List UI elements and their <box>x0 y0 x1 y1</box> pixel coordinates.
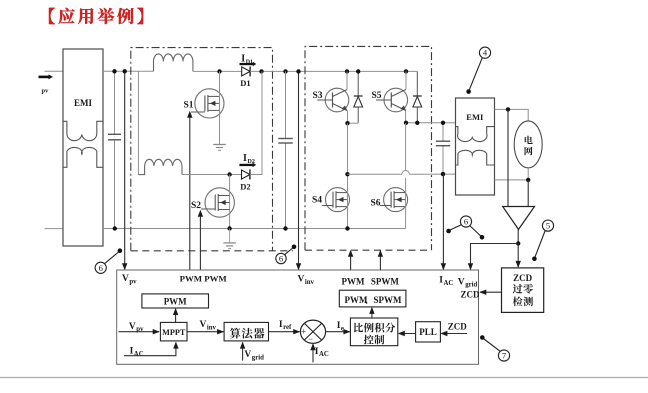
wire SPWM up out <box>379 251 381 270</box>
svg-text:grid: grid <box>252 355 264 362</box>
wire PV- to EMI <box>45 228 64 230</box>
svg-text:PWM: PWM <box>164 297 187 307</box>
wire IAC sense <box>442 174 444 269</box>
svg-text:−: − <box>308 334 313 344</box>
EMI winding bottom <box>63 147 103 167</box>
svg-text:I: I <box>241 53 245 64</box>
svg-text:D2: D2 <box>240 182 250 192</box>
wire summer to PI <box>326 331 350 333</box>
node cap top <box>441 121 445 125</box>
boost converter enclosure (dash-dot box) <box>131 48 273 251</box>
wire amp input right <box>527 180 529 206</box>
svg-text:+: + <box>301 326 306 336</box>
summer (error junction) <box>300 320 325 343</box>
wire IAC to summer <box>312 344 314 362</box>
node Cin bottom <box>113 226 117 230</box>
node S3 collector <box>345 69 349 73</box>
svg-text:PWM: PWM <box>342 276 365 286</box>
svg-text:e: e <box>341 325 344 332</box>
wire MPPT to PWM <box>175 309 177 323</box>
svg-text:V: V <box>129 322 136 332</box>
callout 4 to EMI out <box>479 47 490 58</box>
svg-text:6: 6 <box>464 217 468 227</box>
EMI out winding bottom <box>456 150 495 165</box>
wire amp input left <box>507 109 509 206</box>
svg-text:pv: pv <box>129 278 137 285</box>
block PWM SPWM <box>339 290 406 307</box>
wire L2 to D2 <box>182 174 241 176</box>
op-amp (ZCD amplifier triangle) <box>503 207 535 230</box>
svg-text:S2: S2 <box>191 201 201 211</box>
wire algorithm to summer <box>269 331 300 333</box>
wire L1 to D1 <box>193 70 242 72</box>
svg-text:grid: grid <box>465 282 477 289</box>
svg-text:V: V <box>244 350 251 360</box>
wire EMI to grid top <box>495 109 529 121</box>
transistor S3 <box>325 88 349 112</box>
node DC- <box>283 226 287 230</box>
wire PWM up out <box>350 251 352 270</box>
inductor L2 <box>138 159 182 174</box>
wire line2 (lower output) with hop <box>348 173 402 175</box>
wire grid bottom to EMI <box>495 168 529 180</box>
block PLL <box>416 322 441 342</box>
EMI winding top <box>63 121 103 140</box>
svg-text:5: 5 <box>546 221 550 231</box>
wire EMI out top <box>103 70 154 72</box>
wire Vinv sense <box>298 71 300 269</box>
S2 gate lead <box>201 208 215 210</box>
svg-text:AC: AC <box>134 351 144 358</box>
node Vpv tap <box>123 69 127 73</box>
ground under S2 <box>229 229 231 243</box>
callout 6 on IAC and Vgrid <box>460 216 471 227</box>
svg-text:MPPT: MPPT <box>162 328 186 337</box>
svg-text:ref: ref <box>283 324 292 331</box>
svg-text:AC: AC <box>319 351 329 358</box>
svg-text:V: V <box>200 320 207 330</box>
wire Vgrid to algorithm <box>242 343 244 361</box>
node boost out junction <box>259 69 263 73</box>
transistor S6 (MOSFET) <box>384 188 408 212</box>
capacitor DC link <box>285 71 287 138</box>
wire Vpv to MPPT <box>119 331 160 333</box>
svg-text:S5: S5 <box>372 91 382 101</box>
transistor S4 (MOSFET) <box>326 188 350 212</box>
node S4 source <box>345 226 349 230</box>
S1 gate lead <box>191 111 205 113</box>
svg-text:PWM PWM: PWM PWM <box>180 274 228 284</box>
node cap bottom <box>441 172 445 176</box>
ground under S1 <box>213 144 226 146</box>
inverter enclosure (dash-dot box) <box>305 46 432 250</box>
svg-text:7: 7 <box>502 351 506 361</box>
node S1 drain <box>217 69 221 73</box>
node S5 collector <box>404 69 408 73</box>
S6 gate lead <box>380 205 391 207</box>
controller enclosure box <box>117 270 479 364</box>
wire PWM to S2 gate <box>199 216 201 271</box>
svg-text:D1: D1 <box>240 78 250 88</box>
svg-text:SPWM: SPWM <box>374 295 403 305</box>
svg-text:PWM: PWM <box>345 295 368 305</box>
inductor L1 <box>154 54 193 71</box>
svg-text:EMI: EMI <box>466 112 484 122</box>
wire PI to PWMSPWM <box>371 308 373 318</box>
node S2 source rail <box>227 226 231 230</box>
wire D2 cathode up to rail <box>250 71 262 174</box>
wire PV+ to EMI <box>45 70 64 72</box>
node Vinv tap <box>296 69 300 73</box>
diode antiparallel S3 <box>357 71 359 96</box>
wire Vgrid sense <box>471 244 519 270</box>
node PV input (cut-off current arrow) <box>39 76 50 79</box>
callout 5 to ZCD <box>542 220 553 231</box>
wire ZCD out to controller <box>480 291 502 293</box>
capacitor AC filter <box>442 123 444 141</box>
wire bottom rail <box>103 228 406 230</box>
S4 gate lead <box>322 205 333 207</box>
node amp tap <box>506 107 510 111</box>
svg-text:V: V <box>122 274 129 284</box>
EMI filter block (output) <box>456 98 495 195</box>
node Cin top <box>112 69 116 73</box>
svg-text:6: 6 <box>99 263 103 273</box>
node S5 diode bottom <box>415 121 419 125</box>
svg-text:SPWM: SPWM <box>371 276 400 286</box>
svg-text:ZCD: ZCD <box>448 321 468 331</box>
wire S6 vertical (hops line2) <box>405 123 407 171</box>
node grid bottom <box>526 178 530 182</box>
svg-text:S6: S6 <box>371 198 381 208</box>
svg-text:EMI: EMI <box>74 98 92 108</box>
diode D1 <box>242 67 250 76</box>
svg-text:ZCD: ZCD <box>513 273 533 283</box>
svg-text:inv: inv <box>207 325 217 332</box>
block PWM <box>142 294 209 308</box>
ZCD zero-cross detect block <box>502 268 544 313</box>
node B junction <box>404 121 408 125</box>
wire MPPT to algorithm <box>187 331 223 333</box>
block MPPT <box>160 322 187 341</box>
wire S4 vertical <box>347 123 349 228</box>
wire to ZCD box <box>517 244 519 268</box>
callout 6 on Vpv <box>95 262 106 273</box>
svg-text:AC: AC <box>444 280 454 287</box>
wire node B with output <box>405 111 407 123</box>
transistor S5 <box>384 88 408 112</box>
wire S1 drain-source <box>219 71 221 144</box>
transistor S2 (MOSFET) <box>205 188 234 217</box>
callout 7 controller <box>498 350 509 361</box>
node S2 drain <box>227 172 231 176</box>
svg-text:pv: pv <box>42 88 50 95</box>
block algorithm 算法器 <box>224 322 268 341</box>
grid ellipse 电网 <box>514 121 542 168</box>
transistor S1 (MOSFET) <box>195 89 224 118</box>
wire IAC to MPPT <box>124 343 176 356</box>
svg-text:PLL: PLL <box>419 327 437 337</box>
diode antiparallel S5 <box>416 71 418 96</box>
EMI filter block (input) <box>63 49 103 246</box>
wire node A <box>348 122 359 124</box>
svg-text:I: I <box>243 153 247 164</box>
wire amp out <box>517 229 519 243</box>
callout 6 on Vinv <box>276 253 286 263</box>
wire PWM to S1 gate <box>189 117 191 271</box>
node amp out junction <box>516 241 520 245</box>
svg-text:S4: S4 <box>312 196 322 206</box>
EMI out winding top <box>456 127 495 142</box>
capacitor Cin <box>114 71 116 134</box>
node line2 tap <box>345 172 349 176</box>
wire D1 cathode rail <box>250 70 417 72</box>
node DC+ <box>283 69 287 73</box>
wire Vpv sense <box>124 71 126 269</box>
title 【应用举例】 <box>49 8 55 24</box>
svg-text:S1: S1 <box>184 101 194 111</box>
svg-text:6: 6 <box>279 254 283 264</box>
wire branch2 feed <box>137 71 139 174</box>
svg-text:V: V <box>298 275 305 285</box>
svg-text:V: V <box>458 277 465 287</box>
bottom rule line <box>0 377 648 379</box>
svg-text:S3: S3 <box>313 91 323 101</box>
node S3 diode top <box>356 69 360 73</box>
svg-text:inv: inv <box>305 279 315 286</box>
block PI control 比例积分控制 <box>350 318 397 346</box>
node A junction <box>345 121 349 125</box>
diode D2 <box>242 170 250 179</box>
wire S2 drain-source <box>229 175 231 229</box>
wire PLL to PI <box>399 333 416 335</box>
wire S3 vertical <box>346 71 348 89</box>
wire ZCD to PLL <box>441 333 467 335</box>
svg-text:ZCD: ZCD <box>461 289 481 299</box>
